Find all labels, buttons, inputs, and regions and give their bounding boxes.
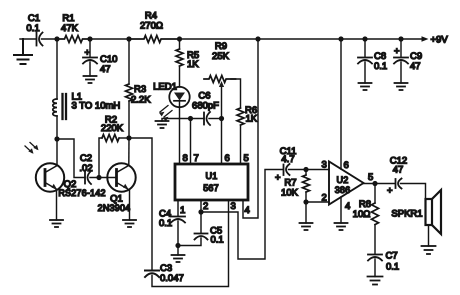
svg-text:3: 3	[231, 201, 236, 212]
LED LED1	[169, 87, 189, 107]
speaker SPKR1	[426, 190, 442, 234]
ground (C8)	[359, 83, 372, 90]
node C9 junction	[398, 36, 403, 41]
svg-text:.02: .02	[79, 163, 92, 174]
ground (U2 pin4)	[335, 223, 348, 230]
node B junction	[87, 36, 92, 41]
svg-text:4: 4	[345, 201, 350, 212]
capacitor C4	[171, 217, 185, 223]
capacitor C12	[396, 179, 402, 189]
wire U2 pin6 riser	[340, 39, 342, 169]
node A junction	[54, 36, 59, 41]
transistor Q1	[107, 163, 135, 191]
wire node F to C9	[341, 38, 401, 40]
wire +9V arrow	[401, 38, 424, 40]
node R7 top junction	[303, 167, 308, 172]
wire node E to node F	[258, 38, 341, 40]
svg-text:2: 2	[203, 201, 208, 212]
capacitor C9	[400, 39, 402, 57]
wire C2 to Q1 base	[90, 177, 116, 179]
node Q1 collector junction	[126, 135, 131, 140]
svg-text:47: 47	[410, 61, 421, 72]
node U1 pin7 junction	[188, 116, 193, 121]
svg-text:680pF: 680pF	[192, 101, 219, 112]
phototransistor Q2	[36, 163, 64, 191]
svg-text:2.2K: 2.2K	[131, 95, 151, 106]
LED1 emission arrows	[160, 106, 172, 118]
svg-text:3: 3	[322, 160, 327, 171]
svg-text:7: 7	[194, 153, 199, 164]
wire U2 output	[364, 183, 396, 185]
svg-text:+: +	[275, 173, 281, 184]
svg-text:RS276-142: RS276-142	[58, 188, 105, 198]
svg-text:LED1: LED1	[153, 82, 177, 93]
svg-text:25K: 25K	[212, 51, 230, 62]
node U1 pin2 junction	[198, 209, 203, 214]
svg-text:567: 567	[203, 183, 219, 193]
svg-text:8: 8	[183, 153, 188, 164]
ground (top-left, C1)	[14, 39, 32, 64]
node Q1 base junction	[96, 175, 101, 180]
wire C6 ground rail	[162, 119, 204, 122]
svg-text:5: 5	[244, 153, 249, 164]
svg-text:270Ω: 270Ω	[140, 21, 163, 32]
IC U1 567	[175, 164, 248, 200]
svg-text:47K: 47K	[61, 23, 79, 34]
node C8 junction	[362, 36, 367, 41]
capacitor C11	[284, 164, 290, 175]
capacitor C1	[37, 33, 43, 46]
resistor R3	[128, 39, 130, 84]
resistor R1	[57, 36, 90, 43]
R9 wiper arrow	[221, 85, 223, 119]
resistor R6	[237, 108, 244, 125]
svg-text:10Ω: 10Ω	[353, 209, 371, 220]
svg-text:0.047: 0.047	[160, 273, 184, 284]
wire U1 pin1 riser	[177, 200, 179, 216]
capacitor C8	[364, 39, 366, 57]
node L1/Q2/C2 junction	[54, 136, 59, 141]
svg-text:2: 2	[322, 193, 327, 204]
wire top rail left segment	[20, 38, 36, 40]
node F junction (U2 pin6 riser)	[338, 36, 343, 41]
capacitor C5	[200, 212, 202, 233]
wire node D to node E	[180, 38, 258, 40]
svg-text:47: 47	[100, 64, 111, 75]
wire LED to U1 pin8	[179, 119, 181, 165]
node U2 output junction	[372, 181, 377, 186]
svg-text:5: 5	[368, 172, 373, 183]
svg-text:10K: 10K	[281, 188, 299, 199]
svg-text:4: 4	[245, 205, 250, 216]
svg-text:4.7: 4.7	[281, 154, 294, 165]
resistor R8	[374, 184, 376, 204]
svg-text:47: 47	[393, 165, 404, 176]
resistor R5	[179, 39, 181, 49]
wire U1 pin7 riser	[190, 119, 192, 165]
node C4/C5 ground junction	[175, 243, 180, 248]
svg-text:1K: 1K	[246, 114, 258, 125]
inductor L1	[56, 39, 58, 99]
capacitor C3	[145, 271, 159, 278]
wire U1 pin2 to C11	[201, 170, 283, 260]
node E junction (U1 pin4 riser)	[255, 36, 260, 41]
node D junction	[177, 36, 182, 41]
wire R9 to R6	[231, 79, 241, 108]
ground (C6 wire)	[156, 121, 169, 128]
resistor R7	[303, 175, 310, 192]
capacitor C2	[85, 171, 91, 184]
svg-text:+9V: +9V	[431, 35, 449, 46]
wire U1 pin6 riser	[221, 119, 223, 165]
svg-text:0.1: 0.1	[26, 23, 39, 34]
wire C6 to pin6 node	[209, 118, 222, 120]
wire R6 to U1 pin5	[240, 125, 242, 164]
wire U1 pin2 riser	[200, 200, 202, 212]
wire Q2 emitter	[56, 190, 58, 221]
node R7 bottom junction	[303, 199, 308, 204]
ground (Q2)	[50, 220, 63, 227]
wire node B to node C	[90, 38, 129, 40]
wire C12 to speaker	[401, 184, 426, 200]
Q2 light arrows	[25, 143, 37, 153]
svg-text:0.1: 0.1	[386, 262, 399, 273]
svg-text:0.1: 0.1	[374, 61, 387, 72]
capacitor C7	[368, 255, 382, 261]
svg-text:+: +	[394, 46, 400, 57]
svg-text:6: 6	[344, 160, 349, 171]
ground (C9)	[395, 83, 408, 90]
capacitor C6	[204, 112, 210, 125]
svg-text:1: 1	[180, 205, 185, 216]
svg-text:2N3904: 2N3904	[98, 203, 131, 213]
capacitor C10	[89, 39, 91, 57]
svg-text:+: +	[85, 48, 91, 59]
wire U2 pin2	[306, 201, 329, 203]
wire U1 pin4 to +9V riser	[243, 39, 258, 218]
wire Q1 emitter	[129, 190, 131, 221]
svg-text:0.1: 0.1	[159, 218, 172, 229]
ground (speaker)	[422, 246, 436, 254]
svg-text:3 TO 10mH: 3 TO 10mH	[72, 101, 121, 112]
ground (Q1)	[123, 220, 136, 227]
wire C11 to U2 pin3	[289, 169, 330, 171]
svg-text:C7: C7	[386, 251, 398, 262]
wire C1 to node A	[42, 38, 58, 40]
svg-text:U1: U1	[206, 171, 218, 181]
wire C3 to U1 pin3	[152, 200, 229, 287]
svg-text:+: +	[387, 186, 393, 197]
node C junction	[126, 36, 131, 41]
wire Q2 collector to C2	[57, 139, 85, 178]
node U1 pin6 junction	[219, 116, 224, 121]
svg-text:R3: R3	[134, 84, 146, 95]
svg-text:220K: 220K	[101, 123, 124, 134]
ground (C4/C5)	[177, 246, 179, 256]
svg-text:0.1: 0.1	[211, 235, 224, 246]
op-amp U2 386	[329, 162, 364, 205]
resistor R4	[129, 36, 180, 43]
resistor R2	[99, 138, 102, 178]
svg-text:SPKR1: SPKR1	[391, 209, 422, 220]
ground (R7)	[305, 202, 307, 223]
potentiometer R9	[204, 76, 236, 83]
ground (C10)	[84, 76, 97, 83]
wire U2 pin4 ground	[340, 197, 342, 223]
svg-text:1K: 1K	[187, 59, 199, 70]
svg-text:U2: U2	[337, 175, 349, 185]
wire Q1 collector to C3	[129, 138, 152, 270]
svg-text:386: 386	[335, 185, 351, 195]
svg-text:6: 6	[225, 153, 230, 164]
ground (C7)	[368, 277, 383, 285]
wire speaker ground	[428, 225, 430, 246]
